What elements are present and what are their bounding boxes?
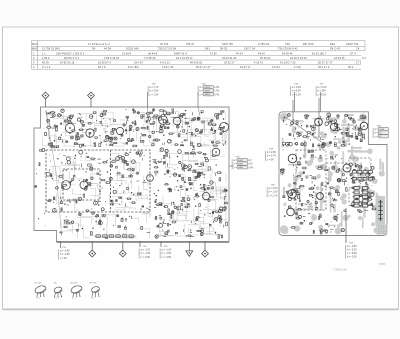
svg-text:D41: D41: [205, 48, 210, 51]
svg-text:24 52 27: 24 52 27: [224, 62, 235, 65]
svg-text:0.4V: 0.4V: [214, 93, 219, 96]
test point diamond TP1: [45, 99, 47, 107]
svg-text:64 26 186 7: 64 26 186 7: [312, 52, 327, 55]
test point diamond TP6: [204, 242, 206, 251]
svg-text:17 2: 17 2: [356, 62, 362, 65]
resistor row near bottom edge: [94, 235, 136, 238]
svg-text:c = 1.0V: c = 1.0V: [292, 93, 301, 96]
component cluster right board bottom: [284, 214, 345, 234]
svg-text:a = -1.2V: a = -1.2V: [141, 249, 151, 252]
svg-text:c = 0V: c = 0V: [267, 158, 274, 161]
transistor T12 right board: [330, 123, 337, 130]
test point diamond TP3: [91, 242, 93, 251]
svg-text:2 1 1 4: 2 1 1 4: [42, 66, 51, 69]
svg-text:55-27 17 27: 55-27 17 27: [196, 66, 211, 69]
svg-text:MAC: MAC: [32, 43, 38, 46]
component cluster right board right block: [349, 163, 377, 213]
svg-text:1 1: 1 1: [42, 52, 46, 55]
svg-text:LN: LN: [248, 159, 251, 162]
svg-text:18 2 24 25 27: 18 2 24 25 27: [176, 57, 193, 60]
svg-text:a = -1.2V: a = -1.2V: [162, 249, 172, 252]
component cluster right board top: [282, 113, 365, 148]
electrolytic C6: [147, 175, 154, 182]
svg-text:b = 1.0V: b = 1.0V: [269, 191, 278, 194]
svg-text:BF 194: BF 194: [90, 282, 98, 284]
test point diamond TP4: [122, 242, 124, 251]
svg-text:55-27 17 27: 55-27 17 27: [318, 62, 333, 65]
right PCB outline: [279, 112, 387, 236]
svg-text:5 4: 5 4: [362, 57, 366, 60]
svg-text:BC 148: BC 148: [35, 282, 43, 284]
svg-text:54/87 41 4: 54/87 41 4: [174, 52, 187, 55]
svg-text:44 24: 44 24: [236, 52, 243, 55]
svg-text:45 2: 45 2: [348, 66, 354, 69]
component cluster right board left edge: [280, 164, 297, 209]
component cluster top band: [45, 109, 227, 148]
component cluster bottom strip: [60, 212, 150, 239]
svg-text:SOLD 044: SOLD 044: [126, 48, 139, 51]
transistor T15 right board: [317, 193, 324, 200]
label TS6 with boxed readings: [197, 92, 199, 107]
label TS3 bottom right: [346, 242, 358, 258]
svg-text:2(5/76 3 U 1: 2(5/76 3 U 1: [64, 57, 79, 60]
label TS0: [160, 246, 172, 259]
svg-text:C4: C4: [356, 48, 360, 51]
svg-text:c = 5.0V: c = 5.0V: [318, 93, 327, 96]
transistor T14 right board: [343, 164, 351, 172]
data table grid: [32, 40, 366, 69]
shield box dashed outline: [46, 150, 150, 212]
svg-text:DB 7126: DB 7126: [303, 43, 314, 46]
label TS8 gap: [282, 156, 290, 158]
svg-text:C42 7 04: C42 7 04: [244, 48, 255, 51]
svg-text:a = 1.7V: a = 1.7V: [150, 86, 159, 89]
svg-text:D4 C-42: D4 C-42: [330, 48, 341, 51]
label TS1: [59, 247, 71, 260]
hatched corner block: [377, 225, 388, 235]
bottom wire to label TS0: [160, 242, 162, 248]
svg-text:756 176 64 0-41: 756 176 64 0-41: [278, 48, 298, 51]
component block right columns: [353, 169, 373, 207]
label TS9 gap: [283, 191, 289, 193]
svg-text:a = 4.9V: a = 4.9V: [292, 86, 301, 89]
transistor T11 right board: [315, 118, 323, 126]
component cluster left edge: [35, 148, 46, 219]
electrolytic C5: [202, 192, 209, 199]
svg-text:CA314: CA314: [204, 90, 211, 93]
svg-text:LM31: LM31: [238, 160, 244, 162]
svg-text:CS14: CS14: [379, 129, 385, 131]
coil can L4: [173, 117, 181, 125]
svg-text:0.4V: 0.4V: [248, 166, 253, 169]
electrolytic C4: [212, 148, 220, 156]
svg-text:13 4x/4: 13 4x/4: [122, 52, 131, 55]
copper pad pattern right board: [278, 113, 385, 235]
svg-text:43 44 45: 43 44 45: [334, 57, 345, 60]
svg-text:44 D4: 44 D4: [104, 48, 112, 51]
svg-text:e b c: e b c: [36, 298, 40, 300]
wire into right board A: [292, 100, 294, 124]
svg-text:45 16 04: 45 16 04: [260, 57, 271, 60]
svg-text:a = 2.8V: a = 2.8V: [267, 151, 276, 154]
svg-text:31 756 32 D41: 31 756 32 D41: [42, 48, 60, 51]
electrolytic C1: [62, 181, 71, 190]
dashed shield right board: [296, 150, 371, 210]
coil symbol near connector: [378, 200, 382, 221]
svg-text:44 04: 44 04: [258, 52, 265, 55]
svg-text:3 59 6 43 18: 3 59 6 43 18: [104, 57, 120, 60]
label TS5: [147, 92, 149, 107]
component cluster right half: [153, 148, 229, 239]
long wire to bottom label: [345, 208, 347, 243]
svg-text:AC: AC: [54, 281, 57, 284]
label TS7 top: [320, 92, 322, 137]
label TSA: [373, 124, 389, 138]
wire into right board B: [318, 98, 320, 137]
left PCB outline: [34, 107, 229, 242]
svg-text:48 29: 48 29: [42, 62, 49, 65]
svg-text:c = -0.8V: c = -0.8V: [162, 256, 172, 259]
svg-text:44 26 5 04 45: 44 26 5 04 45: [290, 57, 307, 60]
svg-text:10V: 10V: [248, 163, 253, 166]
svg-text:b = 3.8V: b = 3.8V: [150, 90, 159, 93]
svg-text:17 04 94+x+17+-4: 17 04 94+x+17+-4: [88, 43, 110, 46]
coil can L5: [219, 122, 228, 131]
svg-text:4 59 6: 4 59 6: [42, 57, 50, 60]
svg-text:48 419-25: 48 419-25: [190, 62, 203, 65]
svg-text:756 37: 756 37: [186, 43, 195, 46]
transistor T13 right board: [360, 122, 368, 130]
svg-text:CRLP 754: CRLP 754: [346, 43, 359, 46]
component cluster shield area: [46, 150, 149, 212]
svg-text:e b c: e b c: [91, 298, 95, 300]
svg-text:34 04 41 26: 34 04 41 26: [222, 57, 237, 60]
svg-text:17 46: 17 46: [294, 66, 301, 69]
svg-text:C56 44(5/1)7 1 204 D 4: C56 44(5/1)7 1 204 D 4: [56, 52, 85, 55]
svg-text:D7 4: D7 4: [350, 52, 356, 55]
svg-text:c = 0V: c = 0V: [60, 257, 67, 260]
svg-text:4 8 3 21: 4 8 3 21: [160, 62, 170, 65]
svg-text:b = -1.5V: b = -1.5V: [141, 252, 151, 255]
svg-text:b = 9.0V: b = 9.0V: [292, 90, 301, 93]
transistor T10 right board: [287, 208, 295, 216]
coil can L1: [65, 123, 74, 132]
label TS2: [139, 246, 151, 259]
legend icon package 3: [70, 281, 83, 299]
coil can L2: [86, 129, 94, 137]
legend icon package 1: [34, 282, 47, 299]
transistor T8 right board: [288, 154, 297, 163]
coil can L3: [159, 116, 168, 125]
electrolytic C3: [116, 127, 123, 134]
svg-text:MAC: MAC: [32, 48, 38, 51]
label TS8 top: [294, 92, 296, 124]
bottom wire to label TS2: [139, 242, 141, 248]
svg-text:756 217 C4 D4: 756 217 C4 D4: [158, 48, 177, 51]
svg-text:CA31: CA31: [238, 166, 244, 169]
svg-text:9VH6: 9VH6: [379, 263, 386, 266]
svg-text:54 08 44: 54 08 44: [282, 52, 293, 55]
svg-text:D4: D4: [92, 48, 96, 51]
svg-text:19 4 67: 19 4 67: [134, 62, 144, 65]
connector strip gray bar: [376, 196, 386, 226]
test point diamond TP2: [90, 99, 92, 107]
svg-text:a = 0.2V: a = 0.2V: [318, 86, 327, 89]
test point triangle TP5: [188, 242, 190, 251]
svg-text:43 27 17: 43 27 17: [240, 66, 251, 69]
svg-text:a = -0.5V: a = -0.5V: [60, 250, 70, 253]
transistor T9 right board: [288, 190, 297, 199]
svg-text:AD 149: AD 149: [71, 281, 79, 284]
diagonal trace right board: [284, 116, 323, 143]
svg-text:TSU: TSU: [285, 43, 290, 46]
svg-text:CA318: CA318: [204, 93, 211, 96]
svg-text:c = -0.8V: c = -0.8V: [141, 256, 151, 259]
svg-text:04 703: 04 703: [160, 43, 169, 46]
svg-text:4 18 43: 4 18 43: [254, 62, 264, 65]
svg-text:0.755 0/4: 0.755 0/4: [258, 43, 270, 46]
svg-text:D4A: D4A: [330, 43, 335, 46]
trace pattern left board: [43, 111, 226, 238]
wire diagonal from test point: [46, 110, 62, 228]
svg-text:45 2 17 4: 45 2 17 4: [318, 66, 330, 69]
electrolytic C2: [80, 181, 88, 189]
svg-text:7 8 45 43: 7 8 45 43: [144, 57, 156, 60]
svg-text:S4/8 756: S4/8 756: [222, 43, 233, 46]
svg-text:TSA: TSA: [377, 124, 382, 127]
svg-text:CA31: CA31: [238, 163, 244, 166]
svg-text:43 16 D 7 26: 43 16 D 7 26: [280, 62, 296, 65]
svg-text:b = -2.5V: b = -2.5V: [60, 253, 70, 256]
svg-text:1.9V: 1.9V: [214, 90, 219, 93]
svg-text:54 92 50 18: 54 92 50 18: [60, 62, 75, 65]
component cluster right board middle: [293, 150, 347, 215]
legend icon package 4: [90, 282, 101, 299]
svg-text:8 6 L 8/6: 8 6 L 8/6: [128, 66, 139, 69]
svg-text:LM318: LM318: [204, 87, 211, 89]
svg-text:d = -2.0V: d = -2.0V: [347, 255, 357, 258]
svg-text:D4 52: D4 52: [220, 48, 228, 51]
svg-text:1.9V: 1.9V: [214, 86, 219, 89]
svg-text:CS9123A: CS9123A: [334, 267, 348, 271]
svg-text:74-8 7 26: 74-8 7 26: [162, 66, 174, 69]
svg-text:b = -2.5V: b = -2.5V: [162, 252, 172, 255]
svg-text:a = 2.5V: a = 2.5V: [269, 187, 278, 190]
scan noise speckle: [36, 111, 380, 240]
svg-text:18 50 67 4: 18 50 67 4: [98, 62, 111, 65]
svg-text:b = 30V: b = 30V: [318, 90, 327, 93]
svg-text:4 6-34: 4 6-34: [272, 66, 280, 69]
svg-text:c = 1.7V: c = 1.7V: [269, 194, 278, 197]
data table text: [32, 43, 366, 69]
svg-text:c = 1.5V: c = 1.5V: [150, 93, 159, 96]
svg-text:d4 44-8: d4 44-8: [148, 52, 158, 55]
svg-text:53 1 5: 53 1 5: [98, 66, 106, 69]
label TS4 boxed readings: [229, 165, 234, 167]
legend icon package 2: [53, 281, 62, 299]
svg-text:41 50: 41 50: [210, 52, 217, 55]
bottom wire to label TS1: [60, 242, 62, 249]
svg-text:b = 2.7V: b = 2.7V: [267, 155, 276, 158]
